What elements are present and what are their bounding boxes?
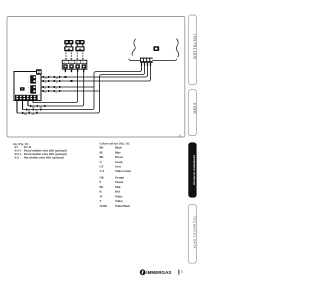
- wire L2 (PCB X9.2 to terminal 41 and CAR pin4): [41, 66, 151, 81]
- svg-text:2: 2: [28, 92, 29, 94]
- connector X2 strip on PCB bottom: [15, 94, 42, 100]
- socket plug right: [75, 46, 84, 51]
- wire terminal pin4 drop: [28, 72, 84, 106]
- svg-text:Green: Green: [115, 161, 123, 164]
- PCB label A4: [36, 69, 42, 75]
- arrowheads onto terminal block: [65, 58, 84, 60]
- svg-text:G/Y: G/Y: [100, 170, 105, 173]
- immergas logo: [140, 269, 184, 275]
- svg-text:Colour code key (Fig. 31):: Colour code key (Fig. 31):: [100, 142, 130, 145]
- svg-text:A13: A13: [14, 157, 19, 160]
- wire colour labels on L3: [43, 86, 50, 90]
- remote control B4 outline (partial, torn edges): [129, 39, 179, 61]
- wire colour labels on L1: [22, 76, 60, 116]
- svg-text:Orange: Orange: [115, 177, 125, 180]
- side tab installer: [188, 15, 196, 85]
- svg-text:41: 41: [70, 62, 72, 64]
- connector X6 on PCB: [28, 85, 36, 94]
- svg-text:G: G: [56, 92, 58, 94]
- svg-text:IMMERGAS: IMMERGAS: [146, 270, 171, 275]
- connector X9 on PCB: [28, 75, 36, 84]
- svg-text:Yellow: Yellow: [115, 200, 123, 203]
- svg-text:43: 43: [82, 62, 84, 64]
- svg-text:Y: Y: [100, 200, 102, 203]
- wire b3 to PCB: [23, 109, 93, 111]
- remote connector pin stubs: [142, 63, 151, 66]
- label B4 on remote: [153, 46, 159, 51]
- svg-text:W/BK: W/BK: [100, 205, 108, 208]
- side tab maintenance technician (active): [188, 142, 196, 197]
- svg-text:40: 40: [64, 62, 66, 64]
- svg-text:W: W: [100, 195, 103, 198]
- connector plug X40-2 (top right jumper): [75, 40, 84, 44]
- svg-text:42: 42: [76, 62, 78, 64]
- PCB A4: [14, 72, 41, 101]
- plug pins between rows: [66, 44, 84, 46]
- terminal block 40-41: [62, 60, 87, 69]
- wire L1 (PCB X9.1 to terminal 40 and CAR pin3): [41, 66, 148, 77]
- svg-text:USER: USER: [193, 103, 197, 115]
- svg-text:BR: BR: [32, 114, 35, 116]
- svg-text:1: 1: [28, 87, 29, 89]
- svg-text:Grey: Grey: [115, 166, 122, 169]
- wire colour labels on b4: [22, 112, 38, 116]
- wire CAR pin2 drop to node V2: [98, 66, 145, 113]
- svg-text:Bus doubler relay affix (optio: Bus doubler relay affix (optional): [24, 157, 64, 160]
- junction terminal pin1: [64, 76, 66, 78]
- pin stubs under X2: [17, 100, 33, 113]
- svg-text:P: P: [100, 181, 102, 184]
- wire colour labels on b2: [30, 105, 46, 109]
- svg-text:White: White: [115, 195, 123, 198]
- svg-text:-: -: [22, 157, 23, 160]
- junction terminal pin2: [71, 80, 73, 82]
- legend left column: [12, 143, 66, 160]
- svg-text:BR: BR: [24, 114, 27, 116]
- wire CAR pin1 drop: [92, 66, 142, 110]
- wire L4 (PCB X6.2 to node V2): [41, 90, 100, 92]
- svg-text:INSTALLER: INSTALLER: [193, 34, 197, 59]
- svg-text:GY: GY: [100, 166, 104, 169]
- svg-text:TECHNICAL DATA: TECHNICAL DATA: [193, 216, 197, 249]
- svg-text:Pink: Pink: [115, 186, 121, 189]
- terminal pins: [65, 69, 83, 72]
- wire terminal pin3 drop: [33, 72, 78, 103]
- svg-text:Red: Red: [115, 191, 120, 194]
- chip on PCB: [20, 87, 25, 90]
- svg-text:Purple: Purple: [115, 181, 124, 184]
- dashed leads from plugs to terminal block: [66, 53, 83, 58]
- wire L3 (PCB X6.1 to node V1): [41, 86, 94, 88]
- socket plug left: [64, 46, 73, 51]
- svg-text:G: G: [45, 92, 47, 94]
- svg-text:BL: BL: [100, 151, 104, 154]
- svg-text:MAINTENANCE TECHNICIAN: MAINTENANCE TECHNICIAN: [193, 155, 196, 186]
- side tab technical data: [188, 204, 196, 263]
- side tab user: [188, 90, 196, 136]
- wire colour labels on L4: [43, 90, 50, 94]
- legend colour code column: [100, 142, 132, 208]
- svg-text:1: 1: [28, 77, 29, 79]
- svg-text:31: 31: [178, 133, 182, 137]
- wire colour labels on L2: [43, 80, 50, 84]
- connector plug X40-1 (top left jumper): [64, 40, 73, 44]
- svg-text:Blue: Blue: [115, 151, 121, 154]
- svg-text:White/Black: White/Black: [115, 205, 130, 208]
- svg-text:Yellow/Green: Yellow/Green: [115, 170, 132, 173]
- wire colour labels on b3: [26, 109, 42, 113]
- svg-text:Black: Black: [115, 147, 122, 150]
- wire b4 to PCB: [17, 112, 98, 114]
- svg-text:2: 2: [28, 82, 29, 84]
- connector on remote control: [140, 58, 153, 63]
- svg-text:Brown: Brown: [115, 156, 123, 159]
